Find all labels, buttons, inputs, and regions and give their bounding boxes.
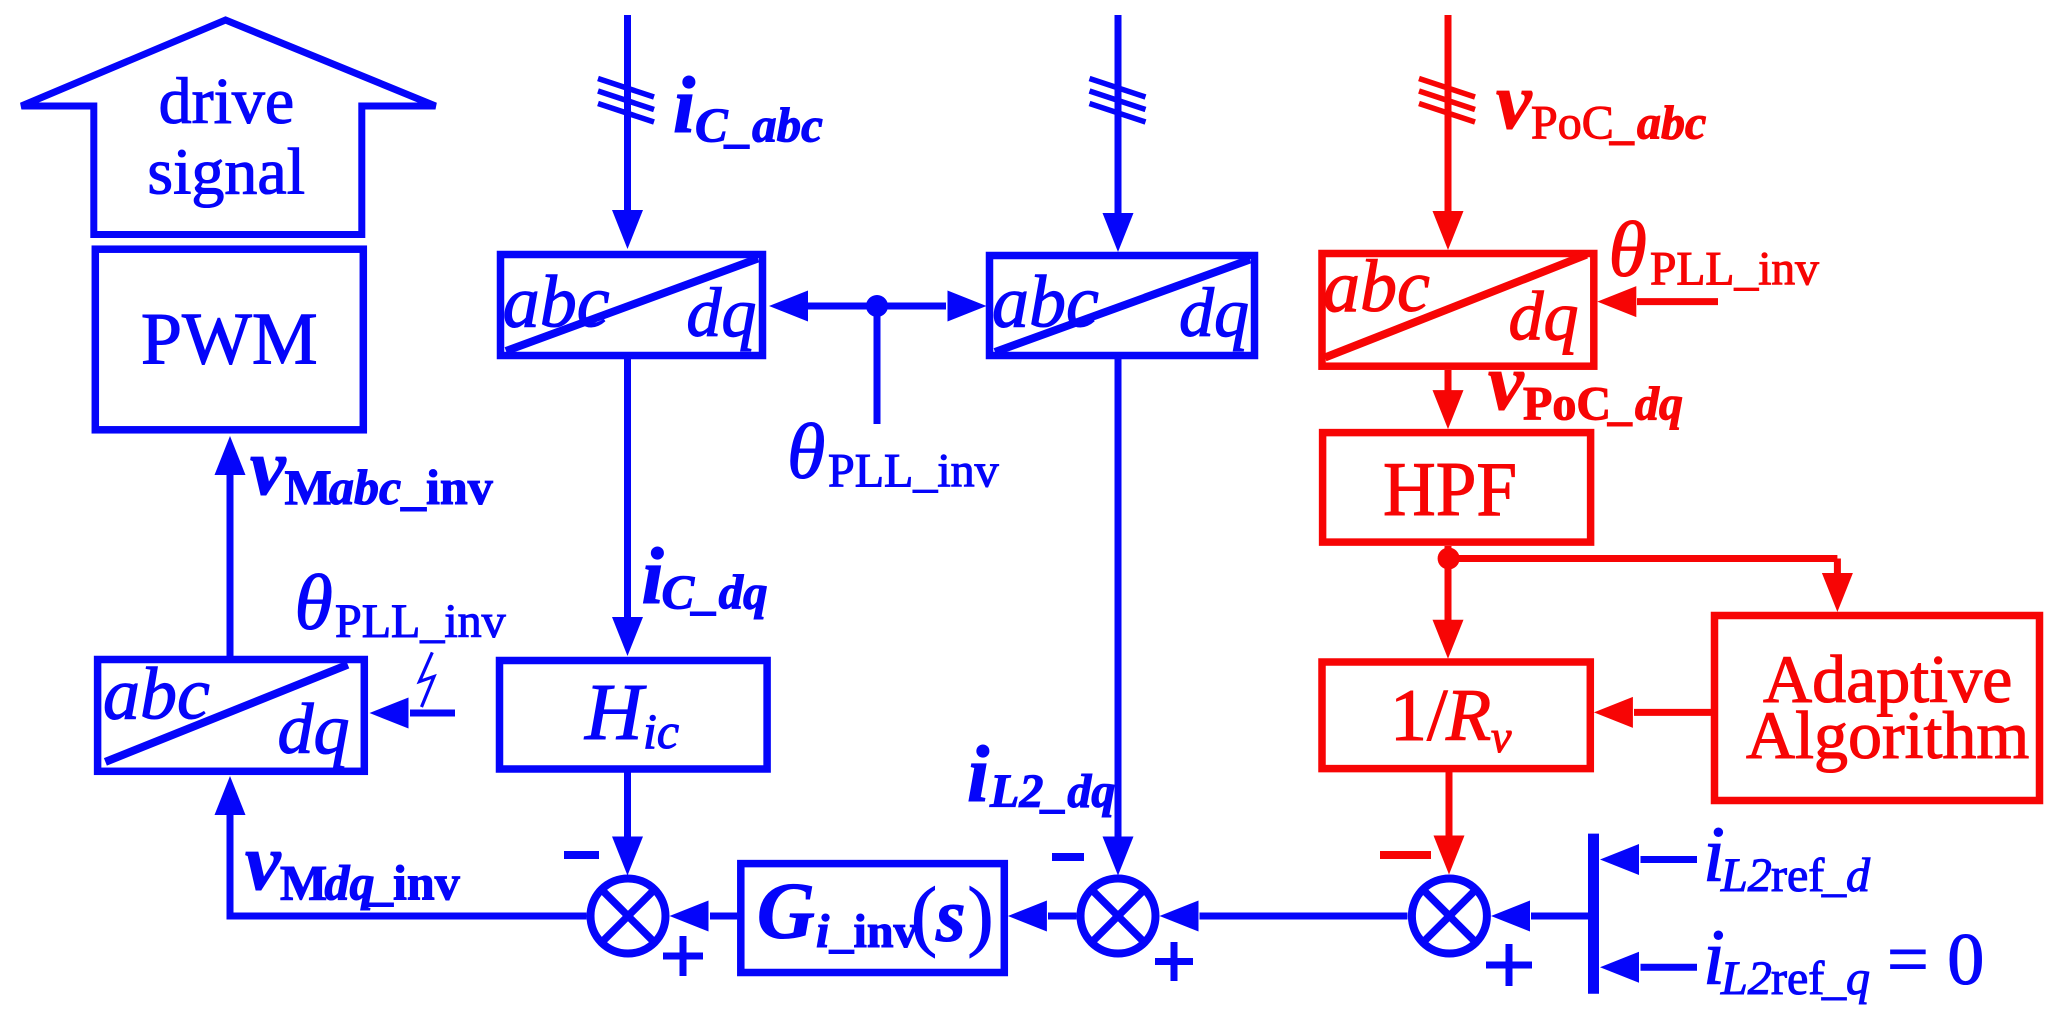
svg-text:dq: dq xyxy=(1179,275,1249,352)
svg-text:dq: dq xyxy=(686,275,756,352)
svg-text:v: v xyxy=(250,424,287,512)
svg-text:G: G xyxy=(757,868,815,956)
svg-text:θ: θ xyxy=(295,559,333,646)
svg-text:PoC: PoC xyxy=(1523,378,1611,431)
svg-text:_inv: _inv xyxy=(829,905,918,958)
svg-text:_dq: _dq xyxy=(1607,378,1683,431)
svg-text:abc: abc xyxy=(329,459,401,515)
svg-text:PoC: PoC xyxy=(1531,96,1614,149)
svg-text:abc: abc xyxy=(992,261,1099,343)
svg-text:): ) xyxy=(968,871,994,958)
svg-text:abc: abc xyxy=(1323,246,1430,328)
svg-text:i: i xyxy=(816,905,830,958)
svg-text:(: ( xyxy=(911,871,937,958)
svg-text:M: M xyxy=(280,855,327,911)
svg-text:_inv: _inv xyxy=(400,459,493,515)
svg-text:dq: dq xyxy=(325,855,375,911)
svg-text:abc: abc xyxy=(503,261,610,343)
svg-text:v: v xyxy=(1491,711,1512,762)
svg-text:v: v xyxy=(1488,339,1525,427)
svg-text:_d: _d xyxy=(1821,849,1871,902)
svg-text:_q: _q xyxy=(1821,952,1870,1005)
svg-text:i: i xyxy=(967,731,989,819)
svg-text:v: v xyxy=(245,819,282,907)
svg-text:ref: ref xyxy=(1771,849,1824,902)
svg-text:_abc: _abc xyxy=(1609,96,1706,149)
svg-text:PWM: PWM xyxy=(141,298,318,380)
svg-text:abc: abc xyxy=(103,654,210,736)
svg-text:H: H xyxy=(584,669,647,757)
svg-text:ic: ic xyxy=(643,703,679,759)
svg-text:Algorithm: Algorithm xyxy=(1746,697,2029,773)
svg-text:1/: 1/ xyxy=(1390,675,1448,757)
svg-text:C_abc: C_abc xyxy=(695,98,823,153)
svg-text:i: i xyxy=(642,533,664,621)
svg-text:θ: θ xyxy=(787,408,825,495)
svg-text:L2: L2 xyxy=(1720,952,1772,1005)
svg-text:PLL_inv: PLL_inv xyxy=(1650,244,1819,296)
svg-text:v: v xyxy=(1496,58,1533,146)
svg-text:_inv: _inv xyxy=(367,855,460,911)
svg-text:L2_dq: L2_dq xyxy=(989,765,1115,818)
svg-text:L2: L2 xyxy=(1720,849,1772,902)
svg-text:θ: θ xyxy=(1609,206,1647,293)
svg-text:drive: drive xyxy=(159,65,295,138)
svg-text:i: i xyxy=(673,62,695,150)
svg-text:C_dq: C_dq xyxy=(662,565,768,620)
svg-text:signal: signal xyxy=(147,135,305,208)
svg-text:s: s xyxy=(935,874,966,958)
svg-text:M: M xyxy=(285,459,332,515)
svg-text:= 0: = 0 xyxy=(1887,919,1984,1001)
svg-text:HPF: HPF xyxy=(1383,446,1517,532)
svg-text:ref: ref xyxy=(1771,952,1824,1005)
svg-text:PLL_inv: PLL_inv xyxy=(828,445,999,498)
svg-text:dq: dq xyxy=(278,689,350,769)
svg-text:PLL_inv: PLL_inv xyxy=(335,595,506,648)
svg-text:R: R xyxy=(1445,675,1491,757)
